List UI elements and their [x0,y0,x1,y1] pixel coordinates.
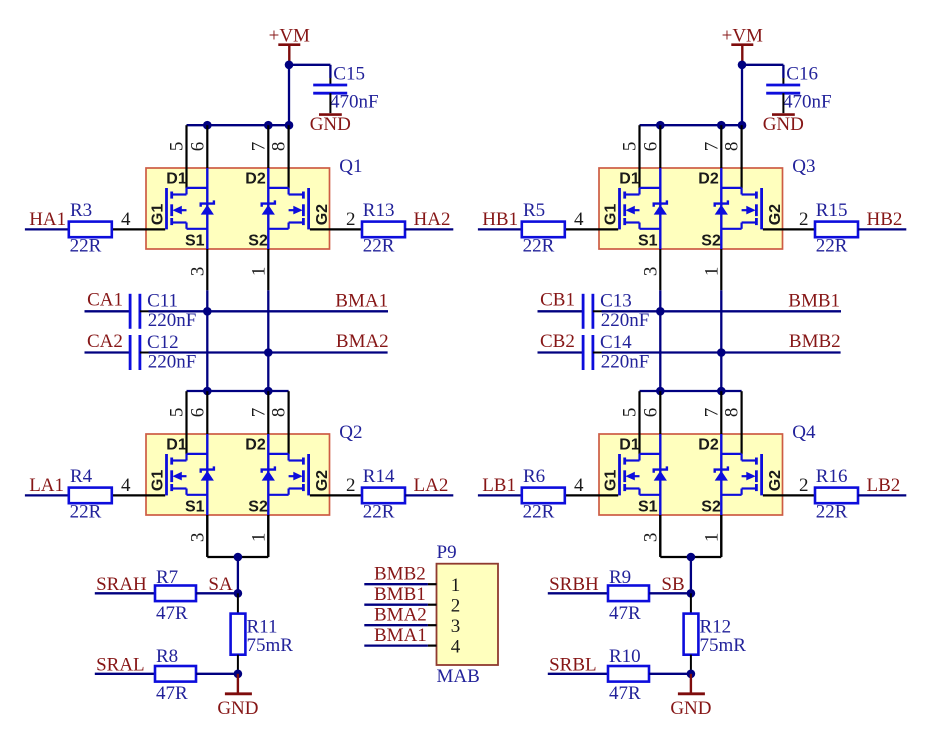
svg-text:BMA2: BMA2 [336,331,389,352]
resistor R11 75mR (vertical) [231,614,246,655]
svg-text:SRAH: SRAH [96,574,147,595]
power port GND below C16 [772,113,795,116]
svg-text:470nF: 470nF [783,91,832,112]
connector P9 (header 4) [437,564,499,665]
svg-text:Q2: Q2 [339,422,362,443]
pin 1 of Q1 (S2) [267,249,269,290]
svg-text:HA2: HA2 [414,209,451,230]
wire net BMB1 [602,310,842,312]
junction SB [687,589,696,598]
svg-text:Q1: Q1 [339,156,362,177]
svg-text:SRBH: SRBH [549,574,599,595]
pin 2 of Q4 (G2) [763,494,815,496]
svg-text:1: 1 [249,267,270,277]
svg-text:75mR: 75mR [247,635,294,656]
svg-text:CA1: CA1 [87,290,123,311]
svg-text:R4: R4 [70,466,93,487]
svg-text:6: 6 [640,408,661,418]
svg-text:S2: S2 [248,233,268,250]
wire net BMB2 [602,351,841,353]
svg-text:G2: G2 [767,470,784,491]
svg-text:G2: G2 [767,204,784,225]
svg-text:4: 4 [574,475,584,496]
svg-text:G1: G1 [602,204,619,225]
svg-text:LB2: LB2 [867,475,901,496]
svg-text:2: 2 [799,475,809,496]
pin 1 of R11 [237,593,239,613]
pin 2 of Q3 (G2) [763,228,815,230]
wire R8 to GND node [196,673,238,675]
svg-text:220nF: 220nF [601,352,650,373]
N-MOSFET 1 inside Q2 (gate bar, channel, arrow) [165,454,168,495]
svg-text:8: 8 [269,408,290,418]
junction rail/pin7 [264,121,273,130]
svg-text:R10: R10 [609,646,641,667]
N-MOSFET 1 inside Q3 (gate bar, channel, arrow) [618,188,621,229]
wire drain rail of Q3 [640,124,743,126]
svg-text:4: 4 [574,209,584,230]
wire BMB2 down to Q4 rail [720,353,722,392]
pin 4 of Q4 (G1) [565,494,618,496]
pin 6 of Q2 [206,391,208,434]
pin 3 of Q4 (S1) [659,515,661,556]
svg-text:2: 2 [451,596,461,617]
wire net LA1 [25,494,69,496]
junction rail/pin6 [656,121,665,130]
junction BMA2/S2 [264,348,273,357]
body diode of MOSFET 2 in Q1 [267,168,269,249]
svg-text:4: 4 [121,475,131,496]
svg-text:MAB: MAB [437,666,480,687]
svg-text:+VM: +VM [269,25,310,46]
N-MOSFET 1 inside Q1 (gate bar, channel, arrow) [165,188,168,229]
pin 1 of Q3 (S2) [720,249,722,290]
wire net BMA1 [149,310,389,312]
pin 7 of Q2 [267,391,269,434]
junction rail/pin7 [264,387,273,396]
junction rail/pin6 [203,121,212,130]
svg-text:BMB1: BMB1 [374,584,426,605]
resistor R15 22R [815,222,858,238]
svg-text:GND: GND [310,114,351,135]
svg-text:D2: D2 [698,171,719,188]
pin 5 of Q4 [638,391,640,454]
pin 3 of Q3 (S1) [659,249,661,290]
power port GND below C15 [319,113,342,116]
svg-text:Q4: Q4 [792,422,816,443]
pin 1 of R12 [690,593,692,613]
svg-text:470nF: 470nF [330,91,379,112]
wire net BMA2 [364,624,428,626]
pin 2 of Q2 (G2) [310,494,362,496]
wire R9 to SB [649,592,691,594]
capacitor C12 220nF [129,335,132,370]
pin 7 of Q4 [720,391,722,434]
resistor R7 47R [155,586,196,602]
svg-text:Q3: Q3 [792,156,815,177]
svg-text:22R: 22R [70,236,102,257]
pin 3 of Q1 (S1) [206,249,208,290]
svg-text:D1: D1 [619,437,640,454]
wire net HA1 [25,228,69,230]
capacitor C15 470nF [313,84,347,87]
wire net LB2 [858,494,906,496]
svg-text:R16: R16 [816,466,848,487]
svg-text:LA1: LA1 [29,475,64,496]
svg-text:8: 8 [269,142,290,152]
power port GND (right bridge bottom) [690,674,692,693]
pin 7 of Q3 [720,125,722,168]
pin 4 of Q1 (G1) [112,228,165,230]
svg-text:S1: S1 [638,233,658,250]
resistor R14 22R [362,488,405,504]
pin 4 of Q3 (G1) [565,228,618,230]
svg-text:G1: G1 [602,470,619,491]
wire net SRBH [548,592,608,594]
wire net HB1 [478,228,522,230]
N-MOSFET 2 inside Q4 (gate bar, channel, arrow) [760,454,763,495]
svg-text:47R: 47R [609,683,641,704]
svg-text:LA2: LA2 [414,475,449,496]
wire net SRBL [548,673,608,675]
pin 6 of Q3 [659,125,661,168]
svg-text:22R: 22R [70,502,102,523]
junction BMA1/S1 [203,307,212,316]
pin 6 of Q4 [659,391,661,434]
svg-text:HA1: HA1 [29,209,66,230]
resistor R3 22R [69,222,112,238]
resistor R10 47R [608,666,649,682]
svg-text:7: 7 [701,408,722,418]
svg-text:3: 3 [188,267,209,277]
svg-text:6: 6 [187,408,208,418]
svg-text:S2: S2 [248,499,268,516]
svg-text:1: 1 [249,533,270,543]
svg-text:HB2: HB2 [867,209,903,230]
svg-text:220nF: 220nF [148,352,197,373]
svg-text:5: 5 [620,142,641,152]
svg-text:7: 7 [248,142,269,152]
junction rail/+VM [285,121,294,130]
wire BMA1 down to Q2 rail [206,311,208,391]
svg-text:+VM: +VM [722,25,763,46]
pin 5 of Q3 [638,125,640,188]
component body Q2 (dual N-MOSFET, yellow box) [146,434,330,515]
svg-text:BMB2: BMB2 [789,331,841,352]
pin of C14 [593,352,602,354]
pin 2 of C15 [329,93,331,113]
capacitor C13 220nF [582,294,585,329]
svg-text:CA2: CA2 [87,331,123,352]
svg-text:S2: S2 [701,233,721,250]
svg-text:GND: GND [763,114,804,135]
pin 1 of Q4 (S2) [720,515,722,556]
svg-text:R7: R7 [156,567,178,588]
pin of C12 [140,352,149,354]
body diode of MOSFET 2 in Q4 [720,434,722,515]
pin 5 of Q1 [185,125,187,188]
svg-text:5: 5 [167,408,188,418]
svg-text:47R: 47R [156,683,188,704]
svg-text:CB2: CB2 [540,331,575,352]
pin 8 of Q1 [288,125,290,188]
svg-text:1: 1 [702,533,723,543]
resistor R9 47R [608,586,649,602]
wire drain rail of Q4 [640,390,742,392]
pin 1 of P9 [428,583,437,585]
wire +VM node to capacitor C15 [289,64,330,66]
pin 8 of Q4 [740,391,742,454]
pin 1 of Q2 (S2) [267,515,269,556]
svg-text:5: 5 [620,408,641,418]
svg-text:D2: D2 [245,437,266,454]
wire net SRAL [95,673,155,675]
svg-text:6: 6 [187,142,208,152]
svg-text:3: 3 [451,616,461,637]
junction +VM node [285,61,294,70]
svg-text:22R: 22R [523,502,555,523]
wire BMB1 down to Q4 rail [659,311,661,391]
capacitor C16 470nF [766,84,800,87]
junction GND node [687,670,696,679]
wire net CB2 [538,351,584,353]
pin 2 of P9 [428,604,437,606]
component body Q1 (dual N-MOSFET, yellow box) [146,168,330,249]
svg-text:D1: D1 [166,437,187,454]
pin 2 of C16 [782,93,784,113]
N-MOSFET 1 inside Q4 (gate bar, channel, arrow) [618,454,621,495]
pin 3 of Q2 (S1) [206,515,208,556]
wire +VM node down to drain rail [741,65,743,125]
svg-text:6: 6 [640,142,661,152]
resistor R8 47R [155,666,196,682]
body diode of MOSFET 1 in Q2 [206,434,208,515]
svg-text:BMA2: BMA2 [374,605,427,626]
wire net CA1 [85,310,131,312]
svg-text:8: 8 [722,142,743,152]
svg-text:7: 7 [248,408,269,418]
svg-text:22R: 22R [816,502,848,523]
resistor R6 22R [522,488,565,504]
wire join down to SA node [237,557,239,593]
svg-text:BMB2: BMB2 [374,564,426,585]
wire Q3 S1 down to BMB1 [659,290,661,311]
junction +VM node [738,61,747,70]
junction sources of Q2 [234,553,243,562]
junction rail/pin7 [717,121,726,130]
svg-text:220nF: 220nF [148,310,197,331]
svg-text:2: 2 [346,475,356,496]
pin 7 of Q1 [267,125,269,168]
pin 5 of Q2 [185,391,187,454]
svg-text:SRAL: SRAL [96,654,145,675]
svg-text:HB1: HB1 [482,209,518,230]
svg-text:R8: R8 [156,646,178,667]
wire net BMA1 [364,644,428,646]
junction BMB1/S1 [656,307,665,316]
junction rail/pin7 [717,387,726,396]
junction BMB2/S2 [717,348,726,357]
wire drain rail of Q2 [187,390,289,392]
wire join down to SB node [690,557,692,593]
svg-text:CB1: CB1 [540,290,575,311]
svg-text:C11: C11 [147,291,178,312]
svg-text:1: 1 [451,575,461,596]
svg-text:D1: D1 [166,171,187,188]
svg-text:D2: D2 [245,171,266,188]
resistor R16 22R [815,488,858,504]
capacitor C14 220nF [582,335,585,370]
svg-text:D1: D1 [619,171,640,188]
N-MOSFET 2 inside Q3 (gate bar, channel, arrow) [760,188,763,229]
pin 8 of Q2 [288,391,290,454]
N-MOSFET 2 inside Q2 (gate bar, channel, arrow) [307,454,310,495]
svg-text:R15: R15 [816,200,848,221]
resistor R13 22R [362,222,405,238]
pin 3 of P9 [428,624,437,626]
svg-text:GND: GND [670,698,711,719]
svg-text:7: 7 [701,142,722,152]
wire +VM node down to drain rail [288,65,290,125]
wire net CB1 [538,310,584,312]
svg-text:C15: C15 [333,63,365,84]
wire BMA2 down to Q2 rail [267,353,269,392]
pin 1 of C15 [329,78,331,85]
pin 2 of R11 [237,655,239,674]
svg-text:C13: C13 [600,291,632,312]
svg-text:G1: G1 [149,470,166,491]
wire net LB1 [478,494,522,496]
resistor R12 75mR (vertical) [684,614,699,655]
svg-text:4: 4 [121,209,131,230]
svg-text:22R: 22R [523,236,555,257]
body diode of MOSFET 2 in Q3 [720,168,722,249]
svg-text:BMB1: BMB1 [788,290,840,311]
body diode of MOSFET 2 in Q2 [267,434,269,515]
svg-text:R14: R14 [363,466,395,487]
svg-text:SRBL: SRBL [549,654,597,675]
svg-text:8: 8 [722,408,743,418]
svg-text:R13: R13 [363,200,395,221]
wire net HB2 [858,228,906,230]
junction rail/+VM [738,121,747,130]
svg-text:4: 4 [451,637,461,658]
pin 4 of P9 [428,644,437,646]
wire net LA2 [405,494,453,496]
svg-text:SB: SB [661,574,684,595]
wire net CA2 [85,351,131,353]
svg-text:S1: S1 [185,233,205,250]
svg-text:C16: C16 [786,63,818,84]
svg-text:47R: 47R [156,603,188,624]
junction rail/pin6 [203,387,212,396]
wire net SRAH [95,592,155,594]
svg-text:S1: S1 [185,499,205,516]
svg-text:22R: 22R [363,236,395,257]
pin of C11 [140,310,149,312]
svg-text:47R: 47R [609,603,641,624]
component body Q4 (dual N-MOSFET, yellow box) [599,434,783,515]
resistor R5 22R [522,222,565,238]
wire net BMB2 [364,583,428,585]
svg-text:S1: S1 [638,499,658,516]
junction sources of Q4 [687,553,696,562]
svg-text:D2: D2 [698,437,719,454]
svg-text:22R: 22R [363,502,395,523]
svg-text:R6: R6 [523,466,545,487]
N-MOSFET 2 inside Q1 (gate bar, channel, arrow) [307,188,310,229]
wire net HA2 [405,228,453,230]
svg-text:G2: G2 [314,470,331,491]
svg-text:LB1: LB1 [482,475,516,496]
power port GND (left bridge bottom) [237,674,239,693]
wire net BMA2 [149,351,388,353]
svg-text:GND: GND [217,698,258,719]
wire net BMB1 [364,604,428,606]
pin 4 of Q2 (G1) [112,494,165,496]
capacitor C11 220nF [129,294,132,329]
junction SA [234,589,243,598]
svg-text:C12: C12 [147,332,179,353]
body diode of MOSFET 1 in Q3 [659,168,661,249]
svg-text:2: 2 [799,209,809,230]
svg-text:SA: SA [208,574,233,595]
svg-text:R5: R5 [523,200,545,221]
svg-text:22R: 22R [816,236,848,257]
svg-text:3: 3 [641,267,662,277]
svg-text:P9: P9 [437,542,457,563]
junction GND node [234,670,243,679]
wire Q1 S1 down to BMA1 [206,290,208,311]
body diode of MOSFET 1 in Q4 [659,434,661,515]
svg-text:R3: R3 [70,200,92,221]
body diode of MOSFET 1 in Q1 [206,168,208,249]
svg-text:3: 3 [641,533,662,543]
pin 2 of R12 [690,655,692,674]
component body Q3 (dual N-MOSFET, yellow box) [599,168,783,249]
wire R10 to GND node [649,673,691,675]
svg-text:G2: G2 [314,204,331,225]
svg-text:2: 2 [346,209,356,230]
svg-text:G1: G1 [149,204,166,225]
wire drain rail of Q1 [187,124,290,126]
pin 1 of C16 [782,78,784,85]
svg-text:5: 5 [167,142,188,152]
resistor R4 22R [69,488,112,504]
pin 8 of Q3 [740,125,742,188]
wire Q4 sources join [659,515,661,557]
junction rail/pin6 [656,387,665,396]
wire Q3 S2 down to BMB2 [720,290,722,352]
svg-text:R9: R9 [609,567,631,588]
svg-text:3: 3 [188,533,209,543]
svg-text:S2: S2 [701,499,721,516]
svg-text:1: 1 [702,267,723,277]
svg-text:BMA1: BMA1 [374,625,427,646]
svg-text:BMA1: BMA1 [335,290,388,311]
pin of C13 [593,310,602,312]
svg-text:220nF: 220nF [601,310,650,331]
wire R7 to SA [196,592,238,594]
svg-text:C14: C14 [600,332,632,353]
wire +VM node to capacitor C16 [742,64,783,66]
pin 6 of Q1 [206,125,208,168]
wire Q2 sources join [206,515,208,557]
svg-text:75mR: 75mR [700,635,747,656]
wire Q1 S2 down to BMA2 [267,290,269,352]
pin 2 of Q1 (G2) [310,228,362,230]
